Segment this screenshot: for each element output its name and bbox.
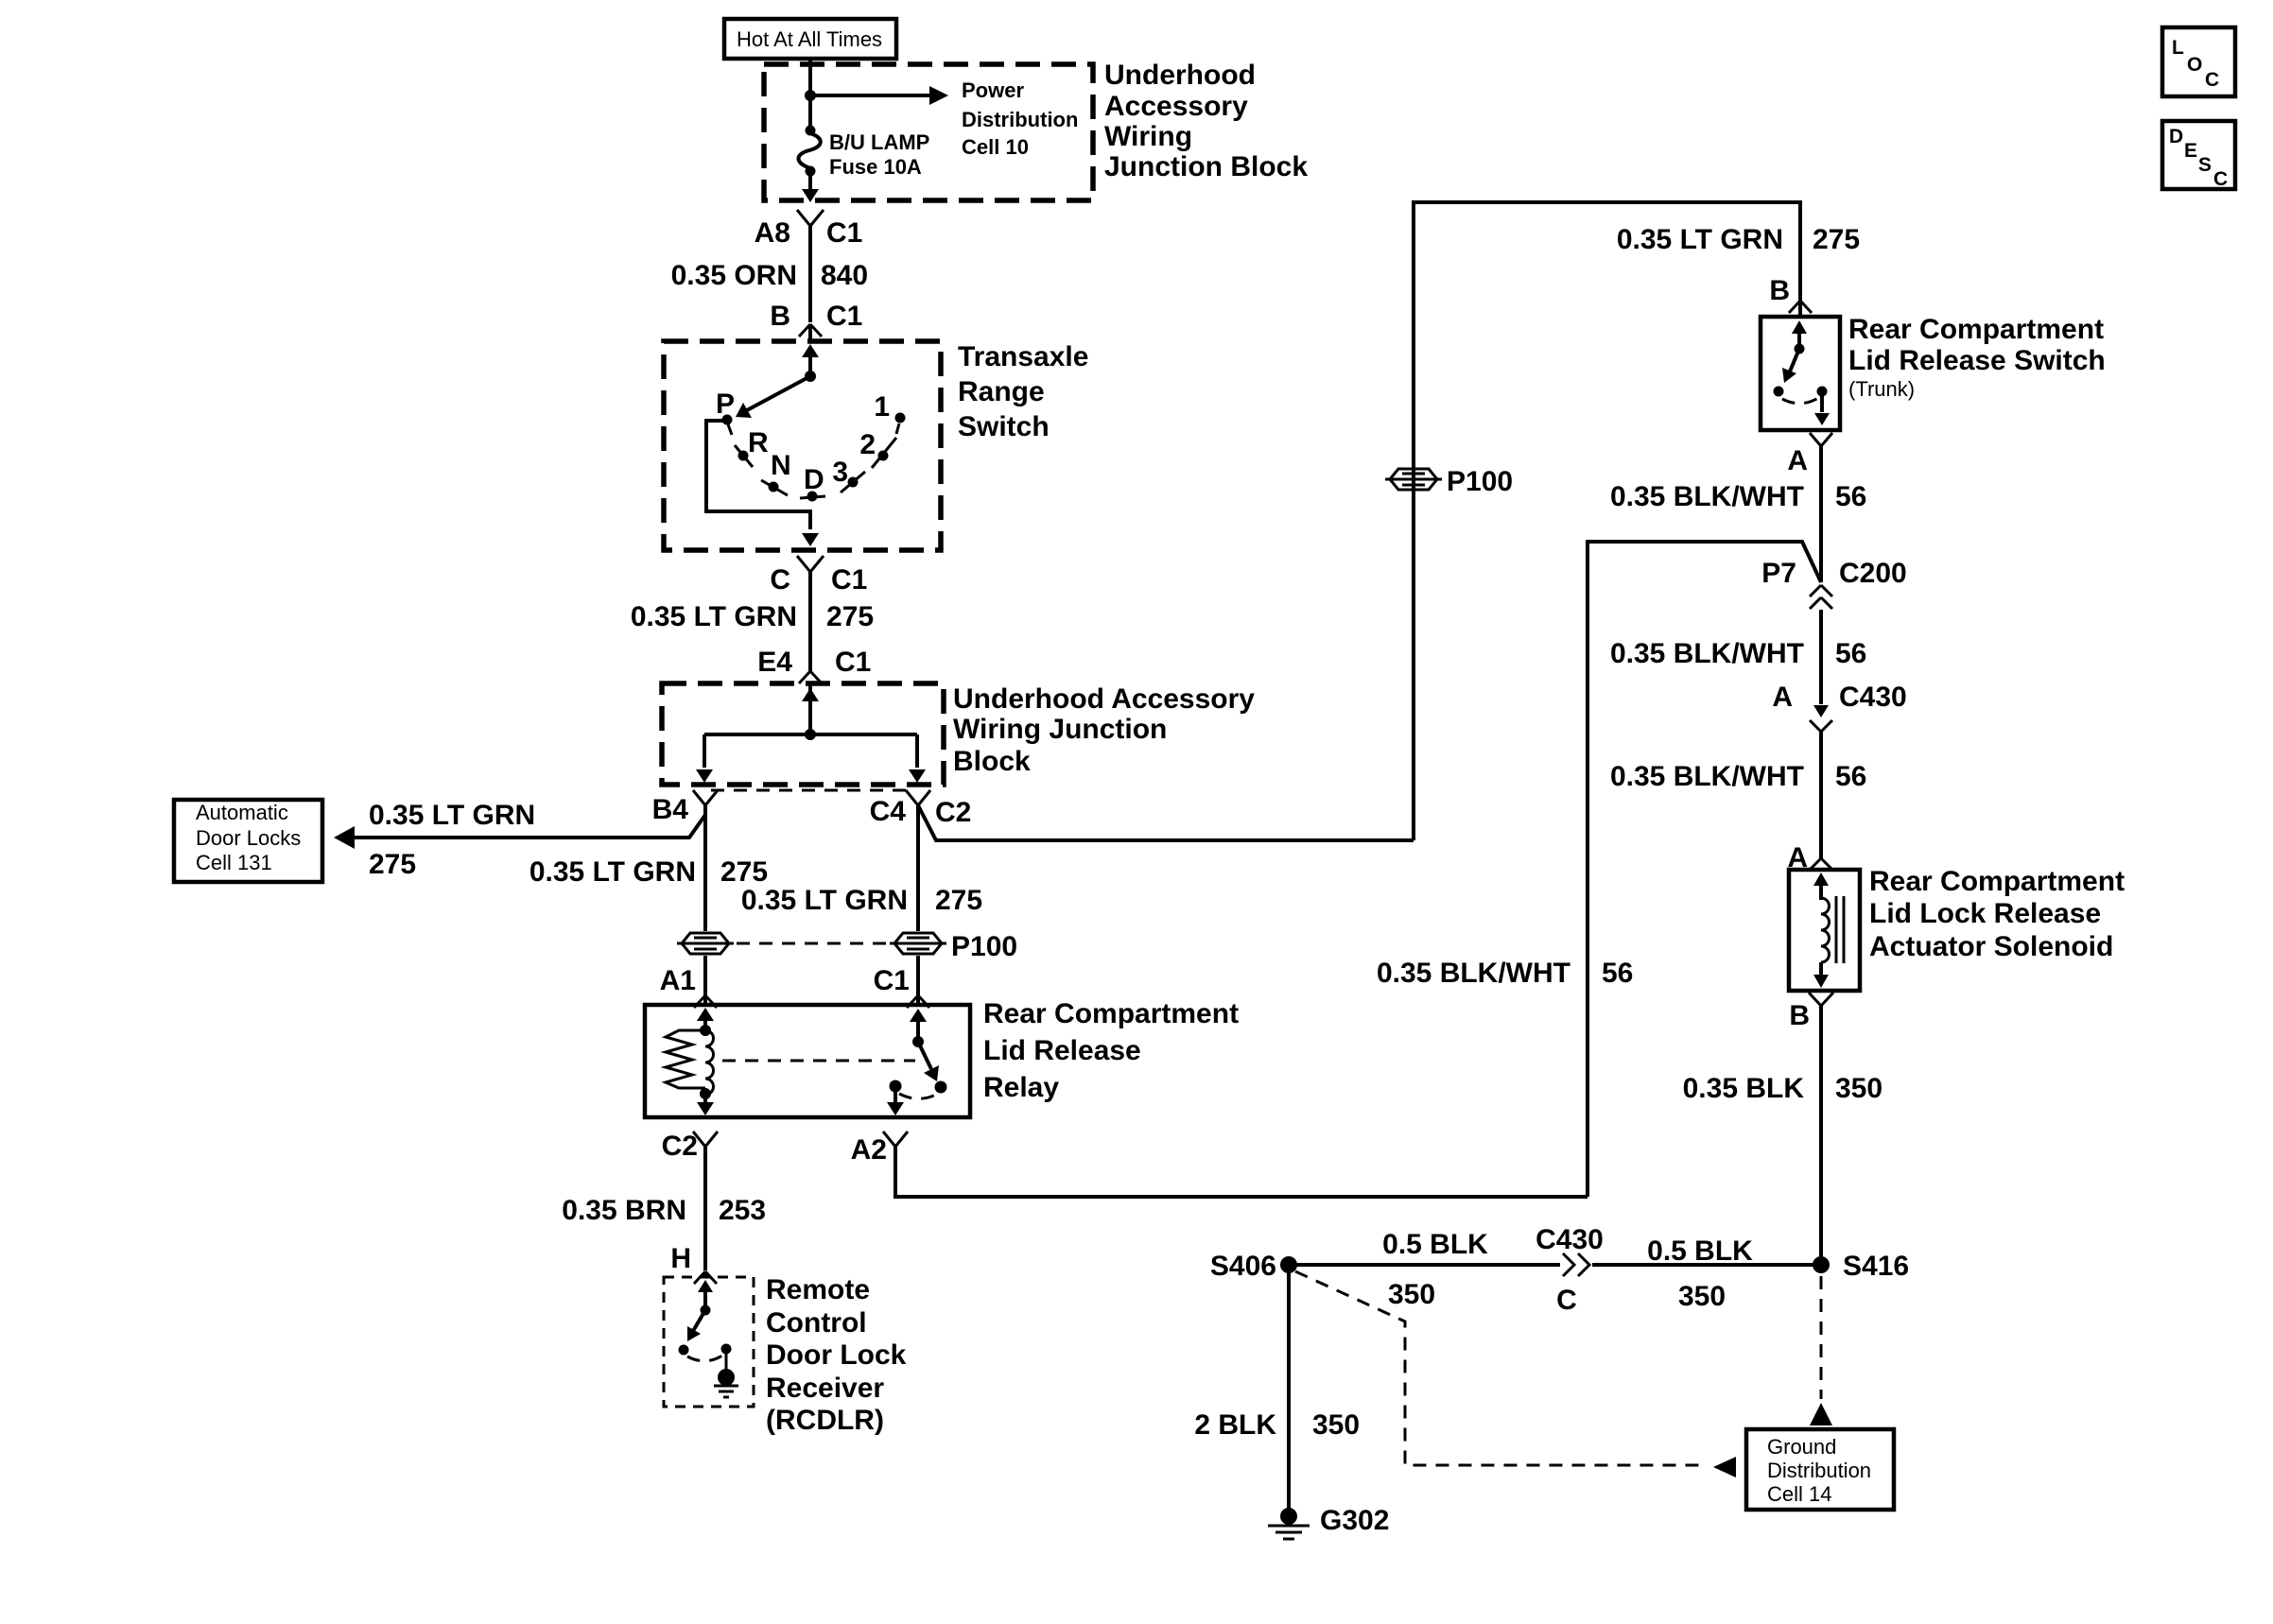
- fuse B/U LAMP Fuse 10A: [799, 126, 930, 180]
- RCDLR switch input arrow: [698, 1280, 713, 1316]
- svg-text:0.35 LT GRN: 0.35 LT GRN: [529, 856, 696, 888]
- relay actuate dashed link: [722, 1060, 915, 1063]
- svg-text:275: 275: [1813, 224, 1860, 255]
- relay switch arm: [912, 1036, 947, 1094]
- svg-text:275: 275: [826, 601, 874, 632]
- svg-text:R: R: [748, 427, 769, 458]
- svg-text:0.5 BLK: 0.5 BLK: [1647, 1235, 1753, 1267]
- trunk switch output arrow: [1814, 395, 1830, 425]
- legend box LOC: [2162, 27, 2235, 96]
- svg-text:0.35 LT GRN: 0.35 LT GRN: [369, 800, 535, 831]
- svg-text:Door Locks: Door Locks: [196, 826, 301, 850]
- connector B (trunk switch): [1769, 275, 1812, 317]
- connector A2: [851, 1132, 908, 1166]
- dashed ground path S416 to cell 14: [1810, 1276, 1832, 1425]
- wire 0.35 BLK/WHT 56 (C430 to solenoid): [1610, 732, 1866, 858]
- svg-text:H: H: [670, 1243, 691, 1274]
- wire 0.35 LT GRN 275: [631, 572, 874, 671]
- connector C430 C (horizontal): [1536, 1224, 1604, 1316]
- svg-text:Remote: Remote: [766, 1274, 870, 1305]
- node S416: [1813, 1251, 1909, 1282]
- reference box Automatic Door Locks Cell 131: [174, 800, 322, 882]
- RCDLR switch arm: [687, 1310, 705, 1341]
- trunk switch input arrow: [1792, 320, 1807, 354]
- svg-text:D: D: [804, 464, 824, 495]
- svg-text:Lid Release: Lid Release: [983, 1035, 1141, 1066]
- svg-text:2: 2: [859, 429, 876, 460]
- svg-text:Rear Compartment: Rear Compartment: [983, 998, 1239, 1029]
- relay label: [983, 998, 1239, 1103]
- wire P100 to A1: [703, 956, 707, 995]
- RCDLR contact dashed arc: [687, 1356, 722, 1361]
- svg-text:0.35 LT GRN: 0.35 LT GRN: [741, 885, 908, 916]
- node junction dot: [805, 90, 816, 101]
- svg-text:B/U LAMP: B/U LAMP: [829, 130, 929, 154]
- connector B (solenoid): [1789, 993, 1833, 1031]
- wire 0.35 BLK 350: [1683, 1006, 1883, 1265]
- contact 2: [859, 429, 896, 468]
- grommet P100 right of pair: [890, 931, 1017, 962]
- relay coil input arrow: [697, 1008, 714, 1030]
- svg-text:(Trunk): (Trunk): [1848, 377, 1915, 401]
- wire H into RCDLR: [703, 1271, 707, 1277]
- switch common input arrow: [802, 344, 819, 382]
- svg-text:B4: B4: [652, 794, 689, 825]
- svg-text:3: 3: [832, 457, 848, 488]
- wire S406 to G302 with label 2 BLK 350: [1194, 1265, 1360, 1509]
- wire 0.35 BLK/WHT 56 (switch to C200): [1610, 446, 1866, 582]
- connector B/C1: [770, 301, 862, 337]
- contact 1: [874, 391, 905, 434]
- junction block 2 dashed box: [662, 683, 944, 785]
- svg-text:350: 350: [1835, 1073, 1883, 1104]
- solenoid output arrow: [1813, 962, 1829, 988]
- contact N: [761, 450, 791, 495]
- svg-text:N: N: [771, 450, 791, 481]
- svg-text:A8: A8: [755, 217, 790, 249]
- wire P100 to C1: [916, 956, 920, 995]
- trunk switch contact dashed arc: [1782, 398, 1818, 404]
- svg-text:Automatic: Automatic: [196, 801, 288, 824]
- svg-text:B: B: [1769, 275, 1790, 306]
- svg-text:A: A: [1787, 445, 1808, 476]
- connector C430 A (vertical): [1772, 682, 1906, 732]
- wire right branch arrow to C4: [909, 734, 926, 783]
- legend box DESC: [2162, 121, 2235, 190]
- solenoid core lines: [1836, 896, 1844, 963]
- svg-text:56: 56: [1835, 481, 1866, 512]
- junction block 2 label: [953, 683, 1255, 777]
- wire C430 to S416: [1592, 1263, 1821, 1267]
- svg-text:0.35 BLK: 0.35 BLK: [1683, 1073, 1805, 1104]
- switch box Rear Compartment Lid Release Switch: [1761, 317, 1840, 430]
- dashed ground path S406 to cell 14: [1295, 1271, 1736, 1477]
- svg-text:C1: C1: [835, 647, 871, 678]
- wire label 0.5 BLK 350 (left): [1382, 1229, 1488, 1310]
- svg-text:C1: C1: [874, 965, 910, 996]
- svg-text:Relay: Relay: [983, 1072, 1059, 1103]
- svg-text:C1: C1: [831, 564, 867, 596]
- svg-text:275: 275: [720, 856, 768, 888]
- relay switch output arrow: [887, 1090, 904, 1115]
- trunk switch arm: [1782, 349, 1799, 383]
- wire into junction block 2 with up arrow: [802, 683, 819, 734]
- junction block 1 dashed box: [764, 64, 1093, 200]
- svg-text:Rear Compartment: Rear Compartment: [1848, 314, 2104, 345]
- node relay coil top: [700, 1025, 711, 1036]
- svg-text:1: 1: [874, 391, 890, 423]
- relay switch input arrow: [910, 1009, 927, 1042]
- svg-text:Underhood Accessory: Underhood Accessory: [953, 683, 1255, 715]
- wire 0.35 ORN 840: [671, 226, 868, 322]
- connector C200 P7: [1761, 558, 1906, 609]
- svg-text:P100: P100: [1447, 466, 1513, 497]
- relay box Rear Compartment Lid Release Relay: [645, 1005, 970, 1117]
- junction block 1 label: [1104, 60, 1308, 182]
- svg-text:Underhood: Underhood: [1104, 60, 1256, 91]
- svg-text:C2: C2: [935, 797, 971, 828]
- RCDLR label: [766, 1274, 907, 1436]
- trunk switch left contact: [1774, 387, 1784, 397]
- transaxle range switch label: [958, 341, 1088, 442]
- svg-text:275: 275: [935, 885, 982, 916]
- solenoid input arrow: [1813, 872, 1829, 900]
- svg-text:Fuse 10A: Fuse 10A: [829, 155, 922, 179]
- connector A8/C1: [755, 210, 863, 249]
- solenoid box Rear Compartment Lid Lock Release Actuator Solenoid: [1789, 870, 1860, 991]
- svg-text:A2: A2: [851, 1134, 887, 1166]
- svg-text:S406: S406: [1210, 1251, 1276, 1282]
- reference box Ground Distribution Cell 14: [1746, 1429, 1894, 1510]
- svg-text:O: O: [2187, 54, 2202, 76]
- svg-text:0.35 ORN: 0.35 ORN: [671, 260, 797, 291]
- wire C1 into relay: [916, 995, 920, 1005]
- grommet P100 left pair symbol: [677, 933, 734, 954]
- svg-text:C430: C430: [1839, 682, 1907, 713]
- transaxle range switch dashed box: [664, 341, 941, 550]
- svg-text:Door Lock: Door Lock: [766, 1339, 907, 1371]
- connector C/C1: [770, 556, 867, 596]
- svg-text:C4: C4: [870, 796, 907, 827]
- svg-text:Cell 131: Cell 131: [196, 851, 272, 874]
- svg-text:275: 275: [369, 849, 416, 880]
- wire A1 into relay: [703, 995, 707, 1005]
- arrowhead to Automatic Door Locks: [334, 826, 355, 849]
- wire fuse to block edge with arrow: [802, 174, 819, 202]
- wire from P around to output: [706, 421, 810, 529]
- svg-text:Lid Lock Release: Lid Lock Release: [1869, 898, 2101, 929]
- svg-text:P7: P7: [1761, 558, 1796, 589]
- RCDLR dashed box: [664, 1277, 754, 1407]
- svg-text:Cell 10: Cell 10: [962, 135, 1029, 159]
- wire label 0.35 LT GRN 275 (door locks): [369, 800, 535, 880]
- svg-text:C: C: [1556, 1285, 1577, 1316]
- wire left branch arrow to B4: [696, 734, 713, 783]
- relay resistor: [666, 1030, 705, 1088]
- connector C1 (relay): [874, 965, 929, 1008]
- wire into transaxle switch: [808, 324, 812, 341]
- svg-text:350: 350: [1678, 1281, 1726, 1312]
- solenoid coil: [1821, 898, 1830, 962]
- svg-text:Wiring: Wiring: [1104, 121, 1192, 152]
- relay contact dashed arc: [899, 1094, 936, 1098]
- contact 3: [832, 457, 865, 492]
- svg-text:P100: P100: [951, 931, 1017, 962]
- grommet P100 right side: [1385, 466, 1513, 497]
- svg-text:A1: A1: [660, 965, 696, 996]
- wire A2 to right net: [895, 1147, 1588, 1197]
- solenoid label: [1869, 866, 2125, 962]
- svg-text:D: D: [2169, 126, 2183, 147]
- wire C4 branch to C2 net going right: [918, 805, 1414, 840]
- svg-text:A: A: [1772, 682, 1793, 713]
- svg-text:E: E: [2184, 140, 2197, 162]
- svg-text:Hot At All Times: Hot At All Times: [737, 27, 882, 51]
- svg-text:Wiring Junction: Wiring Junction: [953, 714, 1167, 745]
- switch wiper arm toward P: [736, 376, 810, 418]
- connector A (solenoid): [1787, 842, 1832, 873]
- svg-text:Control: Control: [766, 1307, 867, 1339]
- svg-text:253: 253: [719, 1195, 766, 1226]
- svg-text:Distribution: Distribution: [1767, 1459, 1871, 1482]
- svg-text:2 BLK: 2 BLK: [1194, 1409, 1276, 1441]
- svg-text:Transaxle: Transaxle: [958, 341, 1088, 372]
- svg-text:0.35 LT GRN: 0.35 LT GRN: [1617, 224, 1783, 255]
- wire 0.35 BLK/WHT 56 (C200 to C430): [1610, 610, 1866, 704]
- grommet dashed tie: [737, 942, 887, 945]
- svg-text:L: L: [2172, 37, 2184, 59]
- connector A1: [660, 965, 717, 1008]
- svg-text:C: C: [2213, 168, 2228, 190]
- svg-text:C2: C2: [662, 1131, 698, 1162]
- connector B4: [652, 790, 718, 825]
- svg-text:Cell 14: Cell 14: [1767, 1482, 1831, 1506]
- wire label 0.35 BLK/WHT 56 (A2 net): [1377, 958, 1633, 989]
- svg-text:56: 56: [1835, 761, 1866, 792]
- svg-text:(RCDLR): (RCDLR): [766, 1405, 884, 1436]
- svg-text:S416: S416: [1843, 1251, 1909, 1282]
- trunk switch right contact: [1817, 387, 1828, 397]
- svg-text:S: S: [2198, 154, 2212, 176]
- svg-text:Actuator Solenoid: Actuator Solenoid: [1869, 931, 2113, 962]
- connector C4: [870, 790, 972, 828]
- connector H: [670, 1243, 717, 1284]
- relay coil: [705, 1030, 714, 1095]
- svg-text:E4: E4: [757, 647, 792, 678]
- relay coil output arrow: [697, 1094, 714, 1115]
- svg-text:Accessory: Accessory: [1104, 91, 1248, 122]
- svg-text:840: 840: [821, 260, 868, 291]
- svg-text:350: 350: [1388, 1279, 1435, 1310]
- connector A (trunk switch): [1787, 433, 1832, 476]
- svg-text:56: 56: [1602, 958, 1633, 989]
- wire 0.35 BRN 253: [562, 1147, 766, 1270]
- svg-text:0.35 BLK/WHT: 0.35 BLK/WHT: [1610, 638, 1804, 669]
- RCDLR internal ground: [714, 1353, 738, 1397]
- svg-text:0.35 BLK/WHT: 0.35 BLK/WHT: [1610, 481, 1804, 512]
- wire label 0.35 LT GRN 275 (top right): [1617, 224, 1860, 255]
- ground G302: [1268, 1505, 1389, 1539]
- wire B4 down to P100: [529, 805, 768, 931]
- contact P: [716, 389, 735, 435]
- wire S406 to C430: [1289, 1263, 1560, 1267]
- svg-text:0.35 BLK/WHT: 0.35 BLK/WHT: [1377, 958, 1570, 989]
- contact R: [735, 427, 769, 467]
- svg-text:Range: Range: [958, 376, 1045, 407]
- svg-text:Receiver: Receiver: [766, 1373, 884, 1404]
- svg-text:0.35 BLK/WHT: 0.35 BLK/WHT: [1610, 761, 1804, 792]
- svg-text:Rear Compartment: Rear Compartment: [1869, 866, 2125, 897]
- svg-text:C: C: [770, 564, 790, 596]
- svg-text:Ground: Ground: [1767, 1435, 1836, 1459]
- switch label: [1848, 314, 2106, 401]
- svg-text:C1: C1: [826, 301, 862, 332]
- svg-text:Lid Release Switch: Lid Release Switch: [1848, 345, 2106, 376]
- wire split horizontal: [704, 733, 917, 736]
- switch output arrow to box edge: [802, 533, 819, 546]
- svg-text:G302: G302: [1320, 1505, 1389, 1536]
- wire from Hot At All Times into junction block: [808, 59, 812, 130]
- svg-text:Switch: Switch: [958, 411, 1050, 442]
- wire P7 branch from A2 net: [1588, 542, 1821, 1197]
- relay switch fixed contact: [890, 1080, 902, 1093]
- RCDLR left contact: [679, 1345, 689, 1356]
- svg-text:56: 56: [1835, 638, 1866, 669]
- wire C4 down to P100: [741, 805, 982, 931]
- svg-text:Block: Block: [953, 746, 1031, 777]
- node S406: [1210, 1251, 1297, 1282]
- svg-text:Power: Power: [962, 78, 1024, 102]
- wire arrow to Power Distribution: [810, 78, 1078, 159]
- fuse box "Hot At All Times": [724, 19, 896, 59]
- svg-text:Junction Block: Junction Block: [1104, 151, 1308, 182]
- svg-text:0.35 BRN: 0.35 BRN: [562, 1195, 686, 1226]
- svg-text:B: B: [770, 301, 790, 332]
- RCDLR right contact: [721, 1344, 732, 1355]
- svg-text:C430: C430: [1536, 1224, 1604, 1255]
- contact D: [800, 464, 825, 502]
- svg-text:C200: C200: [1839, 558, 1907, 589]
- svg-text:P: P: [716, 389, 735, 420]
- svg-text:350: 350: [1312, 1409, 1360, 1441]
- node split dot: [805, 729, 816, 740]
- svg-text:C: C: [2205, 69, 2219, 91]
- svg-text:Distribution: Distribution: [962, 108, 1078, 131]
- svg-text:0.5 BLK: 0.5 BLK: [1382, 1229, 1488, 1260]
- wire B4 branch to door locks: [351, 805, 705, 838]
- node relay coil bottom: [700, 1088, 711, 1099]
- connector E4/C1: [757, 647, 871, 683]
- svg-text:B: B: [1789, 1000, 1810, 1031]
- svg-text:0.35 LT GRN: 0.35 LT GRN: [631, 601, 797, 632]
- wire label 0.5 BLK 350 (right): [1647, 1235, 1753, 1312]
- connector C2 (relay out): [662, 1131, 718, 1162]
- wire C2 net up right side through P100: [1414, 202, 1800, 840]
- svg-text:C1: C1: [826, 217, 862, 249]
- connector C2 dashed tie line: [711, 789, 910, 792]
